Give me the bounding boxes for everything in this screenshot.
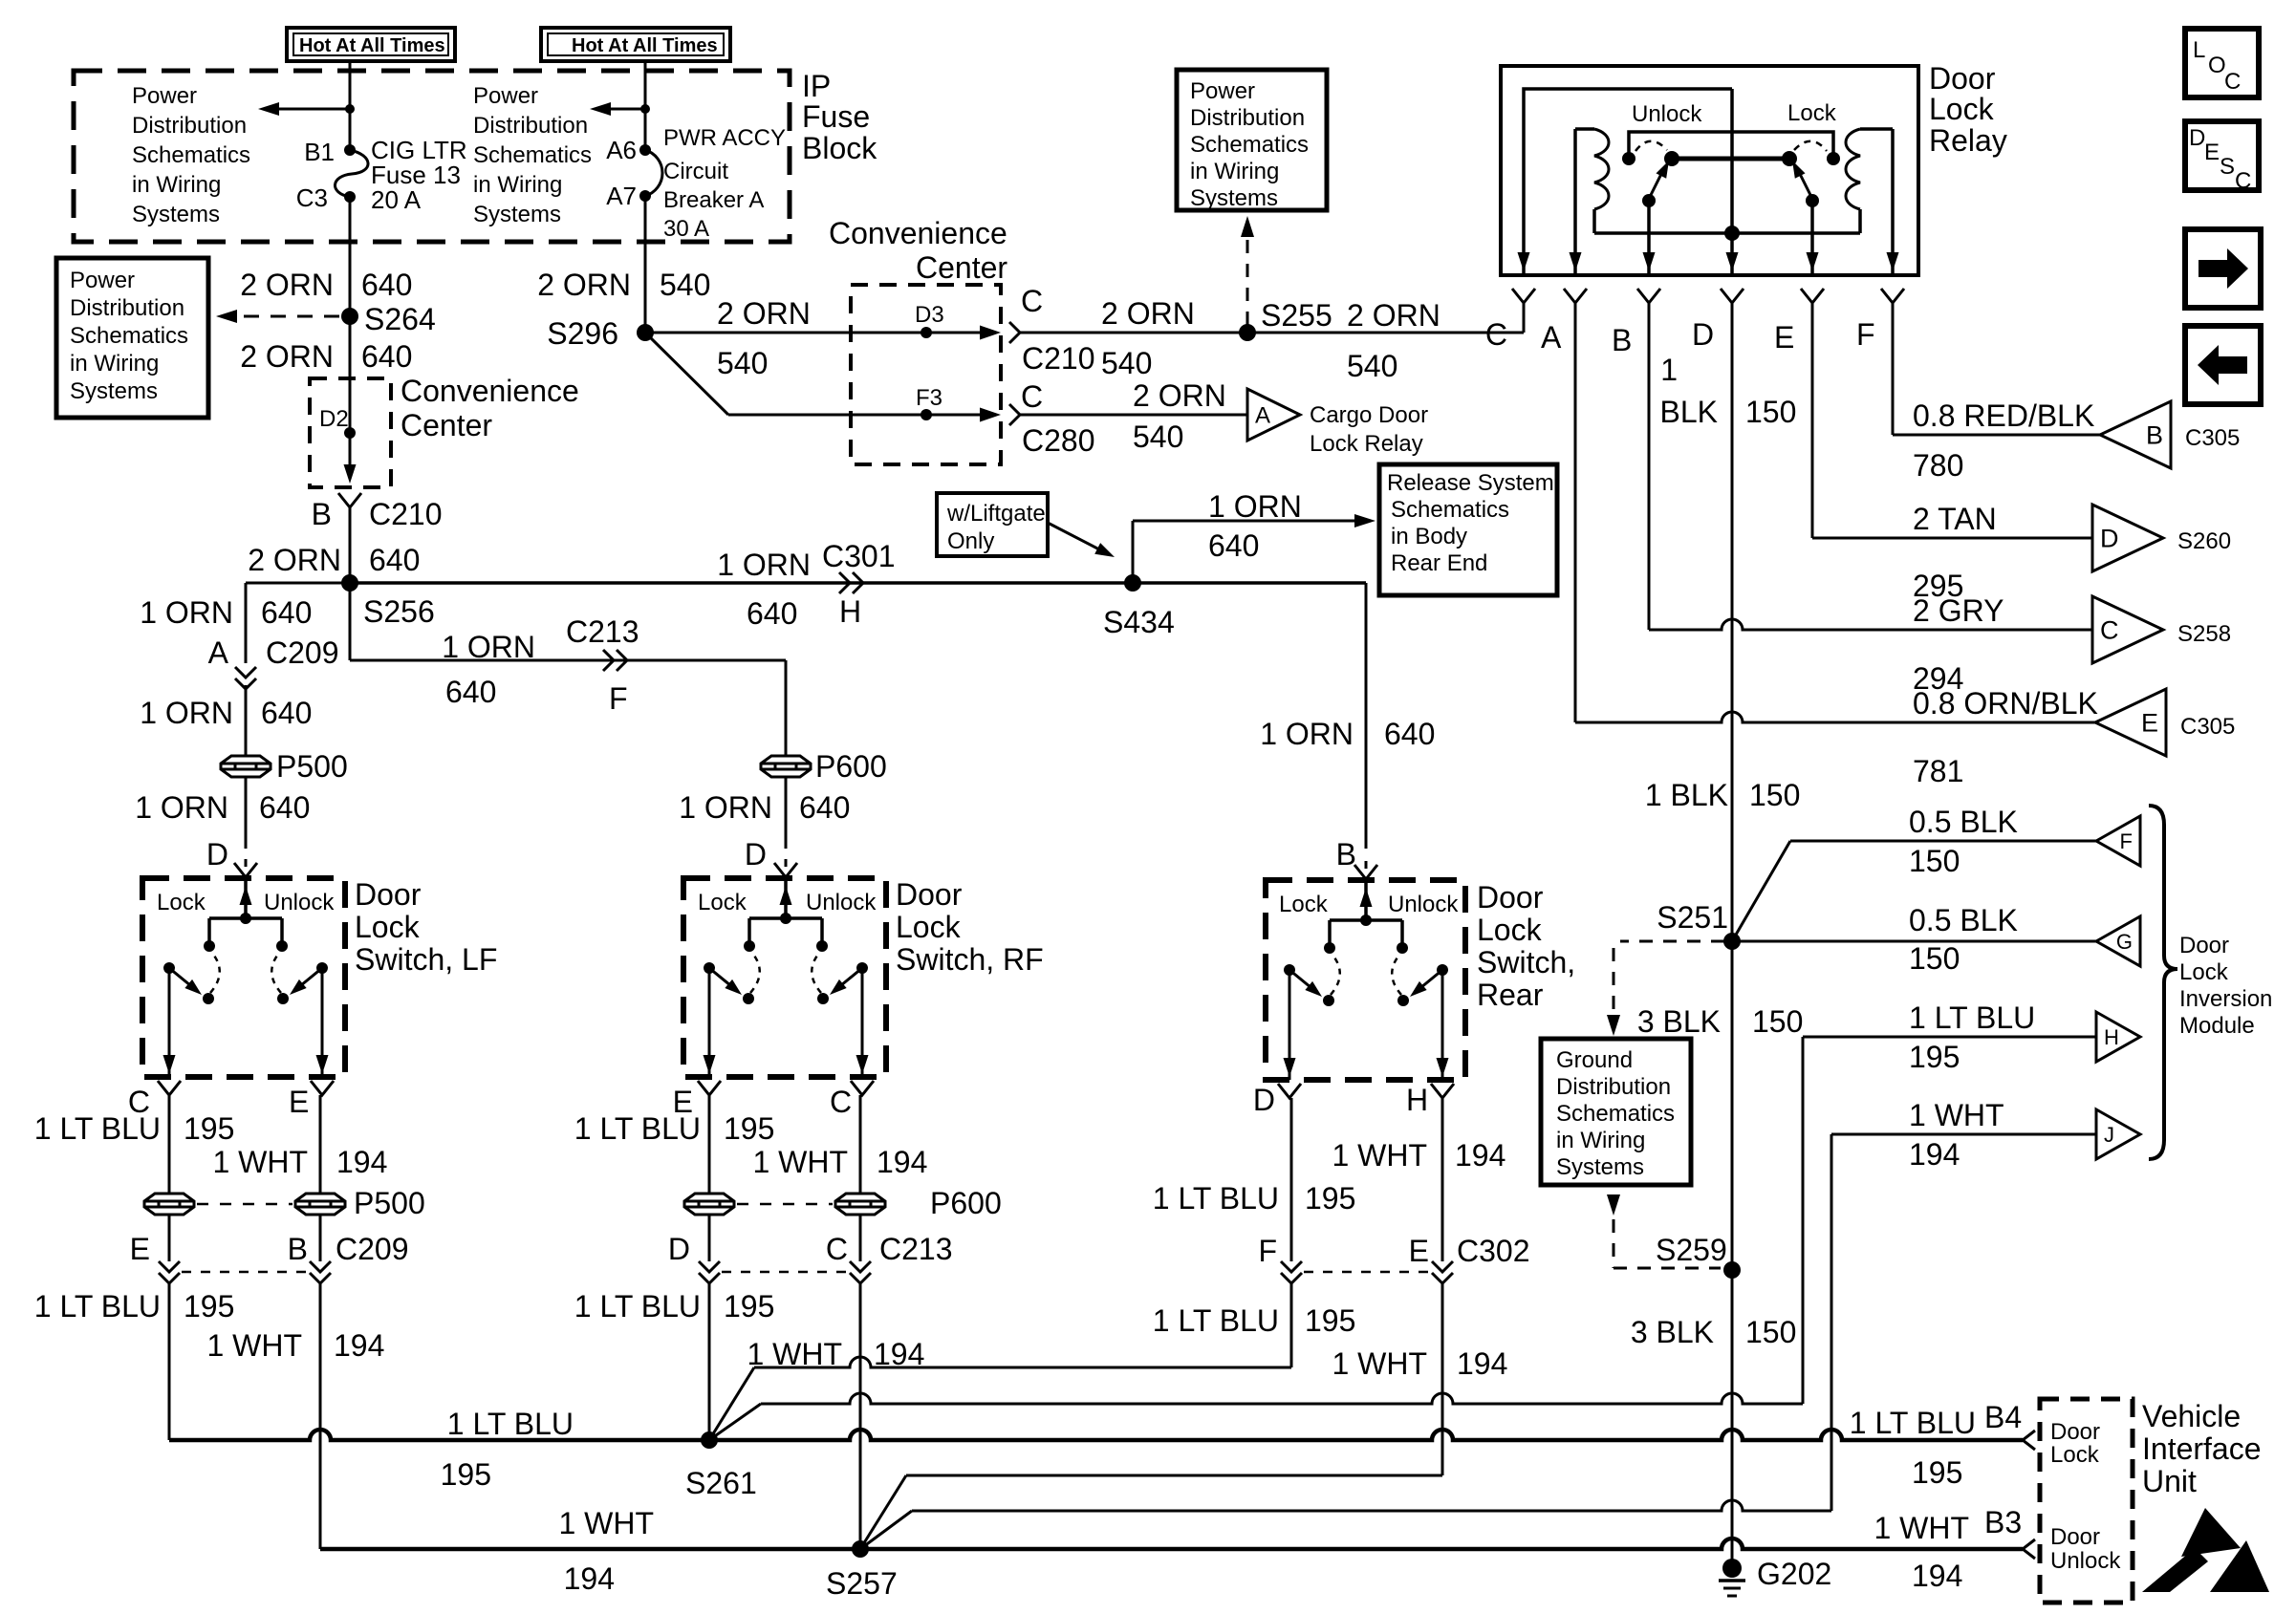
svg-text:C3: C3 <box>296 183 328 212</box>
svg-text:1 LT BLU: 1 LT BLU <box>34 1111 161 1146</box>
wire: S251 to module pin G (0.5 BLK 150) <box>1732 940 2096 943</box>
svg-text:1 ORN: 1 ORN <box>442 630 535 664</box>
dashed arrow S255 up to Power Distribution box <box>1246 226 1249 325</box>
connector C213 lower pins D / C <box>708 1215 711 1261</box>
svg-text:1 WHT: 1 WHT <box>1332 1138 1427 1173</box>
connector triangle E / C305 <box>2095 689 2166 756</box>
splice S261 <box>701 1431 718 1449</box>
wire: fuse C3 down to S264 <box>349 197 352 316</box>
svg-text:2 ORN: 2 ORN <box>248 543 341 577</box>
svg-text:Unlock: Unlock <box>2050 1548 2121 1574</box>
wires: RF pins E/C down to P600 pair <box>708 1095 711 1194</box>
svg-text:1 ORN: 1 ORN <box>140 595 233 630</box>
relay internal: movable contact bar <box>1672 157 1789 161</box>
svg-text:2 ORN: 2 ORN <box>537 268 631 302</box>
component: Door Lock Switch LF <box>142 878 345 1077</box>
svg-text:194: 194 <box>336 1145 387 1179</box>
node D3 <box>921 327 932 338</box>
svg-text:0.5 BLK: 0.5 BLK <box>1909 903 2018 937</box>
grommet P600 (upper) <box>761 756 811 777</box>
svg-text:Convenience: Convenience <box>829 216 1007 250</box>
relay internal: Lock stationary contact <box>1827 152 1840 165</box>
svg-text:195: 195 <box>724 1289 774 1323</box>
svg-text:Fuse: Fuse <box>802 99 870 134</box>
svg-text:0.8 RED/BLK: 0.8 RED/BLK <box>1913 398 2094 433</box>
svg-text:F3: F3 <box>916 385 942 411</box>
svg-text:D: D <box>745 837 767 872</box>
svg-text:2 TAN: 2 TAN <box>1913 502 1997 536</box>
svg-text:A7: A7 <box>606 182 637 210</box>
svg-text:2 ORN: 2 ORN <box>1133 378 1226 413</box>
svg-text:C: C <box>2100 616 2119 645</box>
brace: Door Lock Inversion Module <box>2149 806 2177 1159</box>
svg-text:640: 640 <box>261 595 312 630</box>
wire: S257 to rear switch pin E branch <box>860 1475 906 1549</box>
svg-text:640: 640 <box>747 596 797 631</box>
svg-text:Lock: Lock <box>2179 959 2229 985</box>
svg-text:A: A <box>1541 320 1562 355</box>
wires: rear pins D/H down to C302 <box>1290 1098 1293 1261</box>
svg-text:2 ORN: 2 ORN <box>717 296 811 331</box>
svg-text:1 LT BLU: 1 LT BLU <box>1153 1181 1279 1216</box>
svg-text:194: 194 <box>1455 1138 1505 1173</box>
svg-text:Schematics: Schematics <box>1556 1101 1675 1127</box>
svg-text:1 WHT: 1 WHT <box>212 1145 308 1179</box>
relay internal: lock coil <box>1860 127 1893 131</box>
node F3 <box>921 409 932 420</box>
svg-text:194: 194 <box>1909 1137 1960 1172</box>
svg-text:C280: C280 <box>1022 423 1095 458</box>
wire: S257 to Vehicle Interface Unit B3 (1 WHT 194) <box>860 1539 2023 1549</box>
svg-text:Circuit: Circuit <box>663 159 728 184</box>
svg-text:H: H <box>2104 1025 2119 1049</box>
svg-text:1 ORN: 1 ORN <box>135 790 228 825</box>
svg-text:640: 640 <box>261 696 312 730</box>
relay internal: pin A vertical <box>1573 129 1577 273</box>
svg-text:2 GRY: 2 GRY <box>1913 593 2004 628</box>
svg-text:D: D <box>206 837 228 872</box>
svg-text:C: C <box>826 1232 848 1266</box>
svg-text:2 ORN: 2 ORN <box>240 339 334 374</box>
svg-text:Inversion: Inversion <box>2179 986 2272 1012</box>
svg-text:S255: S255 <box>1261 298 1332 333</box>
svg-text:Schematics: Schematics <box>473 142 592 168</box>
svg-text:195: 195 <box>441 1457 491 1492</box>
svg-text:540: 540 <box>1347 349 1397 383</box>
icon box LOC <box>2185 29 2259 97</box>
svg-text:1 WHT: 1 WHT <box>1332 1346 1427 1381</box>
svg-text:S259: S259 <box>1656 1233 1727 1267</box>
svg-text:Switch,: Switch, <box>1477 945 1575 979</box>
wire: C213 down to P600 (RF) <box>785 660 788 756</box>
wire: relay pin E to connector D S260 (2 TAN 295) <box>1811 303 1814 538</box>
svg-text:150: 150 <box>1752 1004 1803 1039</box>
svg-text:C: C <box>830 1085 852 1119</box>
svg-text:Lock: Lock <box>157 890 206 915</box>
svg-text:194: 194 <box>1457 1346 1507 1381</box>
svg-text:Cargo Door: Cargo Door <box>1310 402 1428 428</box>
svg-text:640: 640 <box>361 339 412 374</box>
svg-text:2 ORN: 2 ORN <box>1101 296 1195 331</box>
svg-text:C: C <box>1021 284 1043 318</box>
svg-text:Systems: Systems <box>132 202 220 227</box>
connector C210 pin B <box>338 493 361 507</box>
svg-text:D: D <box>668 1232 690 1266</box>
svg-text:1 ORN: 1 ORN <box>717 548 811 582</box>
svg-text:640: 640 <box>1384 717 1435 751</box>
svg-text:Breaker A: Breaker A <box>663 187 764 213</box>
svg-text:Lock: Lock <box>355 910 421 944</box>
connector triangle F (module) <box>2096 816 2140 866</box>
fuse F13 CIG LTR 20A <box>344 144 356 156</box>
splice S259 <box>1723 1261 1741 1279</box>
svg-text:Distribution: Distribution <box>70 295 184 321</box>
svg-text:S261: S261 <box>685 1466 757 1500</box>
wire: P600 to RF switch pin D <box>785 777 788 849</box>
svg-text:195: 195 <box>1305 1181 1355 1216</box>
svg-text:E: E <box>289 1085 309 1119</box>
connector C301 pin H <box>839 572 850 593</box>
wires: LF pins C/E down to P500 pair <box>168 1095 171 1194</box>
reference box: Power Distribution Schematics in Wiring Systems (right) <box>1177 70 1327 210</box>
svg-text:P500: P500 <box>354 1186 425 1220</box>
svg-text:1 ORN: 1 ORN <box>1260 717 1354 751</box>
svg-text:P500: P500 <box>276 749 348 784</box>
svg-text:1 ORN: 1 ORN <box>679 790 772 825</box>
relay internal: lock movable arm from pin E <box>1806 194 1819 207</box>
wire: rear E / WHT down to S257 branch <box>1441 1283 1444 1475</box>
svg-text:150: 150 <box>1909 941 1960 976</box>
wire: S257 to module pin J branch <box>860 1511 912 1549</box>
wire: C210 to S255 (2 ORN 540) <box>1019 332 1524 334</box>
connector C209 lower pins E / B <box>168 1215 171 1261</box>
svg-text:Door: Door <box>2050 1419 2100 1445</box>
svg-text:S256: S256 <box>363 594 435 629</box>
svg-text:540: 540 <box>1101 346 1152 380</box>
svg-text:A: A <box>208 635 229 670</box>
wire: S434 right and down to Door Lock Switch Rear (1 ORN 640) <box>1133 581 1366 585</box>
circuit breaker A PWR ACCY 30A <box>639 144 651 156</box>
svg-text:1 LT BLU: 1 LT BLU <box>1909 1001 2035 1035</box>
wire: S251 down to S259 <box>1731 941 1734 1270</box>
svg-text:Lock: Lock <box>1787 100 1837 126</box>
svg-text:194: 194 <box>334 1328 384 1363</box>
svg-text:Distribution: Distribution <box>1190 105 1305 131</box>
wire: LF E / WHT down to S257 line <box>319 1283 322 1549</box>
svg-text:B: B <box>2146 421 2163 450</box>
svg-text:C: C <box>2224 69 2241 95</box>
svg-text:1 WHT: 1 WHT <box>1909 1098 2004 1132</box>
svg-text:Lock: Lock <box>1477 913 1543 947</box>
svg-text:L: L <box>2193 37 2205 63</box>
wire: module pin H (1 LT BLU 195) <box>1803 1036 2096 1039</box>
svg-text:A6: A6 <box>606 136 637 164</box>
svg-text:540: 540 <box>660 268 710 302</box>
svg-text:B: B <box>1336 837 1356 872</box>
svg-text:1 LT BLU: 1 LT BLU <box>1153 1303 1279 1338</box>
svg-text:781: 781 <box>1913 754 1963 788</box>
svg-text:195: 195 <box>184 1111 234 1146</box>
svg-text:in Wiring: in Wiring <box>1556 1128 1645 1153</box>
svg-text:in Wiring: in Wiring <box>132 172 221 198</box>
arrow to power distribution (right column) <box>601 108 645 111</box>
svg-text:D2: D2 <box>319 406 349 432</box>
svg-text:194: 194 <box>564 1561 615 1596</box>
connector triangle B / C305 <box>2100 401 2171 468</box>
svg-text:C210: C210 <box>369 497 443 531</box>
svg-text:Systems: Systems <box>1556 1154 1644 1180</box>
wire: S261 to rear switch pin F branch <box>709 1367 754 1440</box>
relay internal: pin F vertical <box>1891 129 1895 273</box>
splice S251 <box>1723 933 1741 950</box>
note box: w/Liftgate Only <box>937 493 1048 556</box>
svg-text:IP: IP <box>802 69 831 103</box>
component: Vehicle Interface Unit dashed box <box>2040 1399 2133 1603</box>
svg-text:Distribution: Distribution <box>473 113 588 139</box>
svg-text:195: 195 <box>1909 1040 1960 1074</box>
svg-text:C305: C305 <box>2180 714 2235 740</box>
svg-text:E: E <box>2204 140 2220 165</box>
dashed link S251 to Ground Distribution box <box>1620 940 1724 943</box>
splice S296 <box>637 324 654 341</box>
svg-text:B: B <box>288 1232 308 1266</box>
svg-text:640: 640 <box>799 790 850 825</box>
svg-text:195: 195 <box>1912 1455 1962 1490</box>
Convenience Center dashed box (D2) <box>310 378 391 487</box>
svg-text:30 A: 30 A <box>663 216 709 242</box>
svg-text:Lock: Lock <box>896 910 962 944</box>
splice S257 <box>852 1540 869 1558</box>
wire: relay pin A to connector E C305 (0.8 ORN/BLK 781) <box>1574 303 1577 722</box>
wire: relay pin B to connector C S258 (2 GRY 294) <box>1648 303 1651 630</box>
svg-text:Convenience: Convenience <box>401 374 579 408</box>
svg-text:S258: S258 <box>2177 621 2231 647</box>
svg-text:150: 150 <box>1749 778 1800 812</box>
svg-text:Hot At All Times: Hot At All Times <box>299 35 445 56</box>
svg-text:C209: C209 <box>336 1232 409 1266</box>
svg-text:C213: C213 <box>566 614 639 649</box>
svg-text:F: F <box>2120 829 2133 853</box>
svg-text:H: H <box>839 594 861 629</box>
connector triangle D / S260 <box>2092 505 2163 571</box>
svg-text:195: 195 <box>184 1289 234 1323</box>
ground G202 <box>1722 1559 1742 1578</box>
relay internal: pin D vertical <box>1730 89 1734 273</box>
arrow to power distribution (left column) <box>270 108 350 111</box>
svg-text:D3: D3 <box>915 302 944 328</box>
svg-text:640: 640 <box>445 675 496 709</box>
wire: S296 right to Convenience Center D3 (2 ORN 540) <box>645 332 987 334</box>
wire: breaker feed from Hot At All Times (right) <box>644 61 647 150</box>
svg-text:in Wiring: in Wiring <box>1190 159 1279 184</box>
wire: C209 down to P500 <box>245 685 248 756</box>
wire: S256 left to pin A C209 (1 ORN 640) <box>246 582 350 585</box>
svg-text:150: 150 <box>1909 844 1960 878</box>
svg-text:640: 640 <box>259 790 310 825</box>
svg-text:1 WHT: 1 WHT <box>752 1145 848 1179</box>
connector triangle C / S258 <box>2092 596 2163 663</box>
svg-text:F: F <box>609 681 628 716</box>
svg-text:C301: C301 <box>822 539 896 573</box>
svg-text:Systems: Systems <box>473 202 561 227</box>
wire: S261 to Vehicle Interface Unit B4 (1 LT BLU 195) <box>709 1430 2023 1440</box>
svg-text:Rear: Rear <box>1477 978 1544 1012</box>
svg-text:Door: Door <box>2179 933 2229 958</box>
power label box: Hot At All Times (left) <box>287 28 455 61</box>
svg-text:D: D <box>2189 125 2205 151</box>
svg-text:Systems: Systems <box>70 378 158 404</box>
svg-text:1 WHT: 1 WHT <box>558 1506 654 1540</box>
relay internal: unlock coil <box>1575 127 1594 131</box>
svg-text:C: C <box>1485 317 1507 352</box>
svg-text:Switch, RF: Switch, RF <box>896 942 1044 977</box>
svg-text:D: D <box>1253 1083 1275 1117</box>
svg-text:Unlock: Unlock <box>1388 892 1459 917</box>
wire: breaker A7 down to S296 <box>644 196 647 333</box>
svg-text:S260: S260 <box>2177 528 2231 554</box>
wire: module pin J (1 WHT 194) <box>1831 1133 2096 1136</box>
svg-text:P600: P600 <box>815 749 887 784</box>
svg-text:E: E <box>1409 1234 1429 1268</box>
connector C210 pin C (D3 row) <box>980 326 1001 340</box>
component: Door Lock Switch RF <box>683 878 886 1077</box>
ESD static sensitive symbol <box>2181 1508 2241 1557</box>
svg-text:J: J <box>2104 1123 2114 1147</box>
connector B4 fork <box>2023 1431 2035 1450</box>
splice S256 <box>341 574 358 592</box>
svg-text:Unit: Unit <box>2142 1464 2197 1498</box>
svg-text:Unlock: Unlock <box>264 890 335 915</box>
wire: P500 to LF switch pin D <box>245 777 248 849</box>
svg-text:S251: S251 <box>1657 900 1728 935</box>
svg-text:in Wiring: in Wiring <box>473 172 562 198</box>
grommet P500 (upper) <box>221 756 271 777</box>
svg-text:Center: Center <box>401 408 492 442</box>
connector triangle H (module) <box>2096 1012 2140 1062</box>
arrow from w/Liftgate box to S434 branch <box>1048 523 1101 550</box>
svg-text:3 BLK: 3 BLK <box>1637 1004 1721 1039</box>
wire: S296 slant down to F3 row (2 ORN 540) <box>645 333 728 415</box>
splice S434 <box>1124 574 1141 592</box>
svg-text:E: E <box>130 1232 150 1266</box>
svg-text:Distribution: Distribution <box>132 113 247 139</box>
svg-text:Rear End: Rear End <box>1391 550 1487 576</box>
wire: S264 down to Convenience Center D2 <box>349 316 352 378</box>
svg-text:G: G <box>2116 930 2133 954</box>
svg-text:w/Liftgate: w/Liftgate <box>946 501 1046 527</box>
svg-text:S264: S264 <box>364 302 436 336</box>
svg-text:195: 195 <box>1305 1303 1355 1338</box>
wire: F3 row to Cargo Door Lock Relay (2 ORN 540) <box>1019 414 1247 417</box>
wire: LF pin C to S261 (1 LT BLU 195) <box>169 1430 709 1440</box>
svg-text:S434: S434 <box>1103 605 1175 639</box>
component: Door Lock Relay box <box>1501 66 1918 275</box>
relay internal: Unlock stationary contact <box>1622 152 1635 165</box>
svg-text:E: E <box>2141 709 2158 738</box>
wire: RF C / WHT down to S257 <box>859 1283 862 1549</box>
svg-text:Distribution: Distribution <box>1556 1074 1671 1100</box>
wire: relay pin D BLK 150 down to S251 <box>1731 303 1734 941</box>
connector B3 fork <box>2023 1539 2035 1559</box>
svg-text:194: 194 <box>1912 1559 1962 1593</box>
svg-text:O: O <box>2208 53 2226 78</box>
svg-text:1 LT BLU: 1 LT BLU <box>574 1111 701 1146</box>
relay internal: unlock movable arm from pin B <box>1642 194 1656 207</box>
wire: C210 down to S256 <box>349 507 352 583</box>
svg-text:C: C <box>2235 168 2251 194</box>
svg-text:P600: P600 <box>930 1186 1002 1220</box>
svg-text:F: F <box>1258 1234 1277 1268</box>
svg-text:A: A <box>1255 403 1270 429</box>
svg-text:540: 540 <box>717 346 768 380</box>
wire: feed from Hot At All Times to fuse B1 <box>349 61 352 150</box>
svg-text:Lock: Lock <box>698 890 747 915</box>
svg-text:Schematics: Schematics <box>132 142 250 168</box>
wire: relay pin F to connector B C305 (0.8 RED/BLK 780) <box>1892 303 1895 435</box>
wire: S256 to S434 main 1 ORN 640 <box>350 581 1133 585</box>
svg-text:Schematics: Schematics <box>1190 132 1309 158</box>
svg-text:Ground: Ground <box>1556 1047 1633 1073</box>
svg-text:BLK: BLK <box>1660 395 1718 429</box>
svg-text:PWR ACCY: PWR ACCY <box>663 125 786 151</box>
connector triangle G (module) <box>2096 916 2140 966</box>
svg-text:640: 640 <box>361 268 412 302</box>
svg-text:C302: C302 <box>1457 1234 1530 1268</box>
svg-text:1 WHT: 1 WHT <box>206 1328 302 1363</box>
svg-text:C210: C210 <box>1022 341 1095 376</box>
relay pin connectors C A B D E F <box>1512 289 1535 303</box>
svg-text:C305: C305 <box>2185 425 2240 451</box>
svg-text:C213: C213 <box>879 1232 953 1266</box>
svg-text:Interface: Interface <box>2142 1431 2262 1466</box>
svg-text:0.8 ORN/BLK: 0.8 ORN/BLK <box>1913 686 2098 721</box>
svg-text:1 LT BLU: 1 LT BLU <box>1850 1406 1976 1440</box>
svg-text:2 ORN: 2 ORN <box>1347 298 1440 333</box>
wire: S259 down to G202 <box>1731 1270 1734 1564</box>
power label box: Hot At All Times (right) <box>541 28 730 61</box>
svg-text:Module: Module <box>2179 1013 2255 1039</box>
svg-text:in Wiring: in Wiring <box>70 351 159 377</box>
reference box: Release System Schematics in Body Rear End <box>1379 464 1557 595</box>
reference box: Power Distribution Schematics in Wiring Systems (left) <box>56 258 208 418</box>
connector C209 pin A <box>235 667 256 678</box>
svg-text:0.5 BLK: 0.5 BLK <box>1909 805 2018 839</box>
svg-text:Only: Only <box>947 528 994 554</box>
svg-text:D: D <box>2100 525 2119 553</box>
wire through D2 with junction <box>349 378 352 473</box>
svg-text:Systems: Systems <box>1190 185 1278 211</box>
svg-text:640: 640 <box>1208 528 1259 563</box>
svg-text:1 BLK: 1 BLK <box>1645 778 1728 812</box>
svg-text:150: 150 <box>1745 395 1796 429</box>
connector triangle J (module) <box>2096 1109 2140 1159</box>
IP Fuse Block dashed box <box>74 71 790 242</box>
svg-text:B1: B1 <box>304 138 335 166</box>
svg-text:C: C <box>1021 379 1043 414</box>
svg-text:Schematics: Schematics <box>70 323 188 349</box>
relay internal: rail to stationary contacts <box>1629 132 1833 153</box>
svg-text:Power: Power <box>473 83 538 109</box>
svg-text:Unlock: Unlock <box>806 890 877 915</box>
svg-text:1: 1 <box>1660 353 1678 387</box>
reference box: Ground Distribution Schematics in Wiring Systems <box>1541 1039 1691 1185</box>
svg-text:Lock Relay: Lock Relay <box>1310 431 1423 457</box>
svg-text:Release System: Release System <box>1387 470 1554 496</box>
svg-text:Door: Door <box>1929 61 1996 96</box>
svg-text:Relay: Relay <box>1929 123 2007 158</box>
svg-text:Door: Door <box>1477 880 1544 915</box>
svg-text:S: S <box>2220 154 2235 180</box>
